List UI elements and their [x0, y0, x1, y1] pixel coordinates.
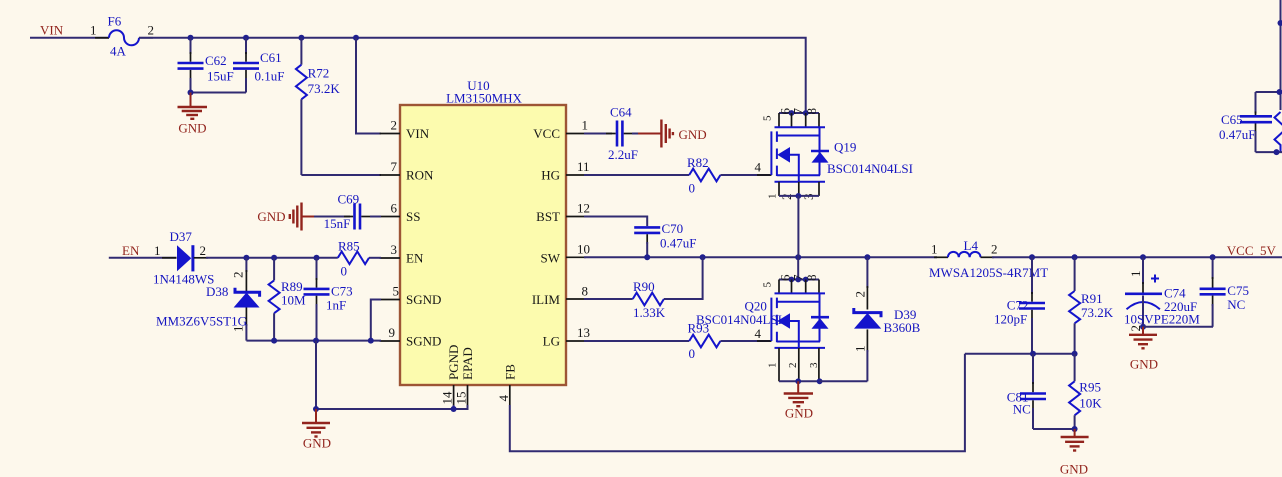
wire SGND rail to U10 pin 9	[246, 340, 381, 342]
resistor R72	[296, 38, 340, 175]
svg-text:73.2K: 73.2K	[308, 81, 341, 96]
svg-text:R82: R82	[687, 155, 709, 170]
wire U10 pin 5 jog to SGND rail	[371, 300, 381, 341]
svg-text:B360B: B360B	[884, 320, 921, 335]
wire R72 to U10 RON pin 7	[301, 174, 381, 176]
wire top rail VIN net	[139, 38, 806, 113]
svg-text:2.2uF: 2.2uF	[608, 147, 638, 162]
wire C74 bottom to C75 bottom	[1143, 326, 1213, 328]
junction right edge top	[1278, 20, 1282, 26]
svg-text:FB: FB	[502, 364, 517, 380]
transistor Q19 BSC014N04LSI	[762, 108, 913, 201]
svg-text:2: 2	[231, 272, 246, 279]
U10 pin 13 LG	[566, 340, 586, 342]
capacitor C62	[178, 38, 234, 93]
svg-text:5: 5	[393, 284, 400, 299]
svg-text:8: 8	[804, 108, 819, 115]
svg-text:120pF: 120pF	[994, 312, 1027, 327]
U10 pin 8 ILIM	[566, 298, 586, 300]
U10 pin 1 VCC	[566, 133, 586, 135]
svg-text:0: 0	[341, 264, 348, 279]
junction pin5 jog	[368, 338, 374, 344]
svg-text:2: 2	[787, 363, 799, 369]
wire Q19 source to SW rail	[797, 196, 799, 257]
svg-text:10SVPE220M: 10SVPE220M	[1124, 312, 1200, 327]
wire C81 bottom to R95 bottom	[1033, 428, 1075, 430]
op-amp U10 LM3150MHX body	[400, 105, 566, 385]
svg-text:GND: GND	[1060, 462, 1088, 477]
svg-text:PGND: PGND	[446, 345, 461, 380]
fuse F6 pin 2	[139, 37, 153, 39]
svg-text:RON: RON	[406, 168, 434, 183]
svg-text:15nF: 15nF	[324, 216, 351, 231]
junction C74 top	[1140, 254, 1146, 260]
svg-text:EN: EN	[122, 243, 140, 258]
U10 pin 6 SS	[380, 216, 400, 218]
capacitor C64	[606, 105, 638, 163]
capacitor C75	[1200, 257, 1249, 327]
svg-text:C61: C61	[260, 50, 282, 65]
svg-text:14: 14	[440, 391, 455, 405]
wire R85 to U10 EN pin 3	[369, 257, 381, 259]
svg-text:VCC: VCC	[533, 126, 560, 141]
ground GND right of C64	[638, 120, 707, 148]
svg-text:BSC014N04LSI: BSC014N04LSI	[696, 312, 782, 327]
svg-text:R95: R95	[1079, 380, 1101, 395]
svg-text:GND: GND	[257, 209, 285, 224]
wire C61 bottom to C62 bottom	[191, 92, 247, 94]
svg-text:C72: C72	[1007, 298, 1029, 313]
junction C65 bottom right	[1274, 149, 1280, 155]
svg-text:R90: R90	[633, 279, 655, 294]
wire U10 ILIM pin 8 to R90	[584, 298, 633, 300]
svg-text:L4: L4	[964, 238, 979, 253]
capacitor C72	[994, 257, 1045, 354]
svg-text:1: 1	[767, 194, 779, 200]
svg-text:15: 15	[454, 392, 469, 405]
svg-text:NC: NC	[1227, 297, 1245, 312]
ground GND left of C69	[257, 203, 316, 231]
svg-text:9: 9	[389, 325, 396, 340]
resistor at right edge (partial)	[1275, 112, 1282, 152]
svg-text:MM3Z6V5ST1G: MM3Z6V5ST1G	[156, 314, 247, 329]
ground GND below R95	[1060, 429, 1089, 477]
svg-text:1: 1	[582, 118, 589, 133]
wire SW rail to Q20 drain	[797, 257, 799, 279]
svg-text:1nF: 1nF	[326, 298, 346, 313]
capacitor C69	[314, 192, 381, 232]
svg-text:10: 10	[577, 242, 590, 257]
transistor Q20 BSC014N04LSI	[696, 274, 829, 384]
junction U10 VIN drop	[353, 35, 359, 41]
svg-text:GND: GND	[679, 127, 707, 142]
wire FB node rail	[965, 353, 1075, 355]
wire R93 to Q20 gate pin 4	[720, 340, 771, 342]
svg-text:0.47uF: 0.47uF	[660, 236, 696, 251]
resistor R91	[1069, 257, 1114, 354]
svg-text:2: 2	[991, 242, 998, 257]
svg-text:5: 5	[762, 282, 774, 288]
U10 pin 10 SW	[566, 256, 586, 258]
svg-text:C70: C70	[662, 221, 684, 236]
ground GND below C62	[178, 93, 208, 136]
svg-text:C75: C75	[1227, 283, 1249, 298]
junction Q19 source / Q20 drain	[795, 254, 801, 260]
junction D38 top	[243, 255, 249, 261]
wire SW rail	[584, 256, 937, 258]
junction R91 top	[1072, 254, 1078, 260]
junction C62 bottom	[188, 90, 194, 96]
svg-text:4: 4	[755, 160, 762, 175]
svg-text:F6: F6	[108, 14, 122, 29]
junction C62 top	[188, 35, 194, 41]
svg-text:LM3150MHX: LM3150MHX	[446, 91, 522, 106]
wire VCC 5V rail	[992, 256, 1282, 258]
svg-text:VCC 5V: VCC 5V	[1227, 243, 1277, 258]
svg-text:4: 4	[496, 395, 511, 402]
svg-text:0.1uF: 0.1uF	[255, 69, 285, 84]
svg-text:VIN: VIN	[40, 23, 64, 38]
capacitor C70	[634, 221, 696, 257]
resistor R95	[1069, 354, 1102, 429]
junction R90 riser	[700, 254, 706, 260]
svg-text:8: 8	[804, 275, 819, 282]
junction C70 bottom	[644, 254, 650, 260]
svg-text:2: 2	[853, 291, 868, 298]
svg-text:6: 6	[391, 201, 398, 216]
svg-text:MWSA1205S-4R7MT: MWSA1205S-4R7MT	[929, 265, 1048, 280]
junction R89 top	[271, 255, 277, 261]
wire VIN to fuse F6	[30, 37, 109, 39]
svg-text:1: 1	[90, 23, 97, 38]
svg-text:D38: D38	[206, 284, 228, 299]
wire R82 to Q19 gate pin 4	[720, 174, 771, 176]
wire SGND rail down to PGND rail	[315, 341, 317, 409]
ground GND below SGND rail	[302, 409, 331, 451]
junction R91 R95 node	[1072, 351, 1078, 357]
svg-text:LG: LG	[543, 334, 560, 349]
junction R95 bottom	[1072, 426, 1078, 432]
U10 pin 2 VIN	[380, 133, 400, 135]
capacitor C81	[1007, 354, 1046, 429]
junction pin 14	[451, 406, 457, 412]
svg-text:10K: 10K	[1079, 396, 1102, 411]
svg-text:VIN: VIN	[406, 126, 430, 141]
wire PGND rail	[316, 405, 468, 409]
svg-text:R91: R91	[1081, 291, 1103, 306]
junction R89 bottom	[271, 338, 277, 344]
wire U10 VCC pin 1 to C64	[584, 133, 612, 135]
svg-text:1: 1	[767, 363, 779, 369]
U10 pin 12 BST	[566, 216, 586, 218]
U10 pin 4 FB	[509, 385, 511, 405]
svg-text:GND: GND	[303, 436, 331, 451]
U10 pin 9 SGND	[380, 340, 400, 342]
zener diode D38 MM3Z6V5ST1G	[156, 258, 260, 341]
svg-text:4: 4	[755, 326, 762, 341]
junction R72 top	[298, 35, 304, 41]
svg-text:R72: R72	[308, 66, 330, 81]
svg-text:GND: GND	[785, 406, 813, 421]
svg-text:1: 1	[1128, 271, 1143, 278]
resistor R82	[687, 155, 720, 196]
junction C73 top	[314, 255, 320, 261]
U10 pin 11 HG	[566, 174, 586, 176]
wire D37 to R85	[194, 257, 208, 259]
svg-text:0: 0	[689, 346, 696, 361]
resistor R90	[633, 279, 666, 320]
junction D39 top	[864, 254, 870, 260]
svg-text:HG: HG	[541, 168, 560, 183]
svg-text:4A: 4A	[110, 44, 127, 59]
svg-text:7: 7	[391, 159, 398, 174]
wire pin 14 to PGND rail	[453, 405, 455, 409]
U10 pin 5 SGND	[380, 299, 400, 301]
junction C74 bottom	[1140, 324, 1146, 330]
svg-text:C69: C69	[338, 192, 360, 207]
svg-text:0.47uF: 0.47uF	[1219, 127, 1255, 142]
wire R90 to SW rail riser	[664, 257, 703, 299]
capacitor C74 10SVPE220M polarized	[1124, 257, 1200, 331]
diode D39 B360B	[853, 257, 921, 381]
junction C65 top right	[1277, 89, 1282, 95]
svg-text:1.33K: 1.33K	[633, 305, 666, 320]
wire U10 LG pin 13 to R93	[584, 340, 689, 342]
svg-text:1: 1	[154, 243, 161, 258]
U10 pin 7 RON	[380, 174, 400, 176]
svg-text:8: 8	[582, 284, 589, 299]
junction C61 top	[243, 35, 249, 41]
wire right edge vertical net	[1280, 0, 1282, 110]
svg-text:3: 3	[808, 362, 820, 368]
wire U10 HG pin 11 to R82	[584, 174, 689, 176]
svg-text:2: 2	[148, 23, 155, 38]
wire C64 to GND	[632, 133, 640, 135]
svg-text:1: 1	[931, 242, 938, 257]
svg-text:C64: C64	[610, 105, 632, 120]
junction PGND rail left	[313, 406, 319, 412]
svg-text:10M: 10M	[281, 293, 306, 308]
fuse F6 pin 1	[95, 37, 109, 39]
svg-text:R85: R85	[338, 239, 360, 254]
svg-text:Q19: Q19	[834, 140, 856, 155]
svg-text:0: 0	[689, 181, 696, 196]
svg-text:2: 2	[391, 118, 398, 133]
svg-text:SGND: SGND	[406, 334, 441, 349]
junction C73 bottom	[313, 338, 319, 344]
wire EN to diode D37	[109, 257, 177, 259]
wire C65 top node	[1256, 91, 1282, 93]
capacitor C65	[1219, 92, 1272, 152]
capacitor C73	[304, 258, 353, 341]
svg-text:C65: C65	[1221, 112, 1243, 127]
svg-text:11: 11	[577, 159, 590, 174]
wire FB pin 4 to divider node	[510, 354, 965, 451]
junction C75 top	[1210, 254, 1216, 260]
svg-text:BST: BST	[536, 209, 560, 224]
fuse F6	[109, 30, 139, 45]
junction C72 top	[1029, 254, 1035, 260]
svg-text:3: 3	[391, 242, 398, 257]
svg-text:BSC014N04LSI: BSC014N04LSI	[827, 161, 913, 176]
diode D37 1N4148WS	[153, 229, 214, 287]
svg-text:C73: C73	[331, 284, 353, 299]
svg-text:13: 13	[577, 325, 590, 340]
svg-text:EPAD: EPAD	[460, 347, 475, 380]
svg-text:D37: D37	[170, 229, 193, 244]
svg-text:15uF: 15uF	[207, 69, 234, 84]
wire C65 bottom node	[1256, 151, 1282, 153]
svg-text:SGND: SGND	[406, 292, 441, 307]
wire U10 BST pin 12 to C70	[584, 217, 647, 227]
resistor R93	[688, 321, 721, 362]
svg-text:ILIM: ILIM	[532, 292, 561, 307]
U10 pin 15 EPAD	[467, 385, 469, 405]
svg-text:EN: EN	[406, 251, 424, 266]
svg-text:12: 12	[577, 201, 590, 216]
wire D39 anode to Q20 source rail	[820, 380, 868, 382]
wire VIN drop to U10 pin 2	[356, 38, 381, 134]
U10 pin 14 PGND	[453, 385, 455, 405]
svg-text:5: 5	[762, 115, 774, 121]
resistor R85	[338, 239, 369, 279]
ground GND below Q20	[784, 381, 813, 420]
svg-text:SS: SS	[406, 209, 420, 224]
svg-text:1: 1	[853, 346, 868, 353]
svg-text:GND: GND	[178, 121, 206, 136]
svg-text:SW: SW	[541, 251, 561, 266]
ground GND below C74	[1129, 327, 1158, 372]
inductor L4 MWSA1205S-4R7MT	[929, 238, 1048, 280]
svg-text:GND: GND	[1130, 357, 1158, 372]
junction C81 top	[1030, 351, 1036, 357]
svg-text:2: 2	[200, 243, 207, 258]
U10 pin 3 EN	[380, 257, 400, 259]
svg-text:NC: NC	[1013, 402, 1031, 417]
resistor R89	[269, 258, 306, 341]
svg-text:C62: C62	[205, 53, 227, 68]
capacitor C61	[233, 38, 284, 93]
svg-text:73.2K: 73.2K	[1081, 305, 1114, 320]
